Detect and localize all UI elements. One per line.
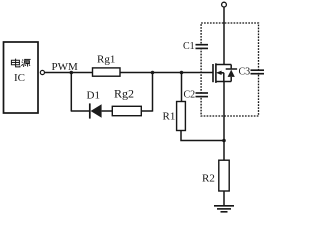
wire R2 to ground [223, 191, 225, 206]
svg-text:C2: C2 [184, 89, 196, 100]
node junction B [151, 71, 155, 75]
capacitor C3 [251, 70, 265, 74]
white gaps for capacitors on dashed edges [200, 45, 261, 95]
svg-text:IC: IC [14, 72, 25, 84]
svg-text:C3: C3 [239, 66, 251, 77]
node junction C [180, 71, 184, 75]
package dashed box (MOSFET model) [201, 23, 258, 116]
svg-text:Rg2: Rg2 [114, 87, 134, 101]
node junction D [222, 139, 226, 143]
ground [214, 206, 234, 212]
svg-text:Rg1: Rg1 [97, 54, 115, 66]
resistor R1 [177, 102, 186, 131]
resistor R2 [219, 160, 229, 191]
svg-text:R1: R1 [163, 111, 176, 123]
wire Rg2 to riser [141, 110, 152, 112]
wire node A to D1 [71, 110, 89, 112]
wire R1 bottom to node D [181, 131, 224, 141]
capacitor C1 [196, 45, 209, 49]
svg-text:PWM: PWM [52, 61, 79, 73]
diode D1 [90, 103, 102, 118]
wire gate rail left [45, 72, 93, 74]
svg-text:R2: R2 [202, 173, 215, 185]
wire D1 to Rg2 [102, 110, 113, 112]
wire drain vertical [223, 7, 225, 65]
terminal circle drain top [222, 2, 227, 7]
wire source vertical [223, 82, 225, 161]
wire branch down from node A [70, 73, 72, 112]
wire branch up to node B [152, 73, 154, 112]
wire node C down to R1 [181, 73, 183, 102]
label 电源 (hand-drawn glyphs) [11, 59, 30, 67]
node junction A [70, 71, 74, 75]
resistor Rg1 [93, 68, 121, 76]
terminal circle PWM pin [40, 70, 44, 74]
wire gate rail right [120, 72, 213, 74]
resistor Rg2 [112, 106, 141, 115]
power IC box U1 [4, 42, 39, 113]
transistor Q1 (MOSFET with body diode) [213, 63, 237, 83]
svg-text:C1: C1 [183, 41, 195, 52]
capacitor C2 [196, 93, 209, 97]
svg-text:D1: D1 [87, 90, 100, 102]
